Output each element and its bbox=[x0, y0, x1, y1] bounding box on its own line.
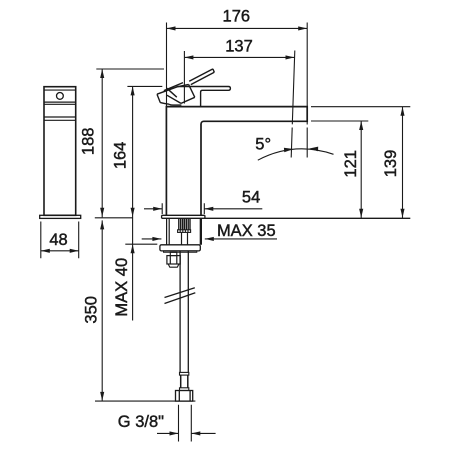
MAX40 arrow bbox=[131, 244, 135, 253]
side view band lines bbox=[44, 117, 76, 120]
lever rod upper line bbox=[189, 69, 213, 81]
spout end tilted line bbox=[291, 51, 295, 158]
svg-text:48: 48 bbox=[49, 231, 67, 249]
hose lower section bbox=[181, 375, 188, 388]
lever rod lower line bbox=[191, 72, 215, 84]
break marks bbox=[165, 288, 196, 304]
G38 arrows bbox=[170, 431, 179, 435]
end nut bbox=[176, 391, 193, 402]
svg-text:164: 164 bbox=[112, 142, 130, 170]
front view faucet outline bbox=[166, 107, 307, 216]
svg-text:MAX 35: MAX 35 bbox=[217, 222, 276, 240]
right ext lines bbox=[311, 107, 410, 121]
139 arrows bbox=[400, 107, 404, 116]
137 arrows bbox=[184, 55, 193, 59]
arrowheads bbox=[41, 26, 405, 435]
176 arrows bbox=[167, 26, 176, 30]
clamp plate lower layer bbox=[164, 251, 197, 252]
MAX35 arrows bbox=[152, 237, 161, 241]
164 arrows bbox=[131, 86, 135, 95]
under-sink right stud bbox=[200, 218, 201, 245]
MAX35 leader bbox=[142, 238, 277, 240]
svg-text:188: 188 bbox=[79, 128, 97, 156]
dim 137 bbox=[184, 51, 294, 104]
350 arrows bbox=[100, 220, 104, 229]
lever rod end cap bbox=[213, 69, 214, 72]
svg-text:5°: 5° bbox=[255, 136, 271, 154]
svg-text:MAX 40: MAX 40 bbox=[113, 258, 131, 317]
side view body bbox=[44, 87, 76, 216]
dim 54 bbox=[144, 203, 262, 214]
side view cap bottom lines bbox=[44, 102, 76, 104]
dim 139 bbox=[402, 107, 404, 219]
dim 48 bbox=[41, 222, 79, 259]
svg-text:176: 176 bbox=[223, 8, 251, 26]
dimension lines (thin) bbox=[41, 23, 411, 442]
ferrule band bbox=[180, 388, 189, 391]
side view circle bbox=[57, 93, 64, 100]
dim MAX40 bbox=[125, 243, 157, 245]
clamp plate bbox=[160, 245, 200, 251]
nut neck bbox=[170, 252, 177, 255]
5deg arc arrows bbox=[284, 148, 294, 153]
spout end vertical ext bbox=[306, 23, 308, 158]
mounting plane line bbox=[162, 217, 411, 219]
5 deg arc bbox=[258, 149, 334, 160]
nut chamfer bbox=[168, 264, 179, 267]
svg-text:121: 121 bbox=[342, 150, 360, 178]
threaded shank bbox=[179, 219, 190, 230]
svg-text:G 3/8": G 3/8" bbox=[118, 413, 164, 431]
dim 350 bbox=[95, 218, 196, 401]
handle flat tab bbox=[177, 87, 231, 107]
side view base plate bbox=[40, 215, 81, 218]
center stem bbox=[182, 232, 188, 244]
dim 164 bbox=[127, 86, 162, 320]
svg-text:139: 139 bbox=[382, 150, 400, 178]
188 arrows bbox=[100, 69, 104, 78]
svg-text:54: 54 bbox=[242, 189, 260, 207]
svg-text:350: 350 bbox=[82, 296, 100, 324]
dim 176 bbox=[167, 23, 308, 107]
dim G38 bbox=[157, 405, 216, 442]
knurled ring bbox=[178, 230, 191, 233]
under-sink left stud bbox=[167, 218, 170, 245]
hose tick band bbox=[180, 372, 189, 375]
front base plate bbox=[162, 215, 205, 218]
svg-text:137: 137 bbox=[225, 38, 253, 56]
hose bbox=[180, 251, 188, 372]
dim 188 bbox=[96, 69, 164, 217]
121 arrows bbox=[359, 121, 363, 130]
48 arrows bbox=[41, 249, 50, 253]
54 arrows bbox=[153, 207, 162, 211]
dim 121 bbox=[360, 121, 362, 218]
handle base strokes bbox=[157, 83, 195, 106]
hex nut bbox=[167, 256, 180, 264]
side view cap top line bbox=[44, 89, 76, 91]
